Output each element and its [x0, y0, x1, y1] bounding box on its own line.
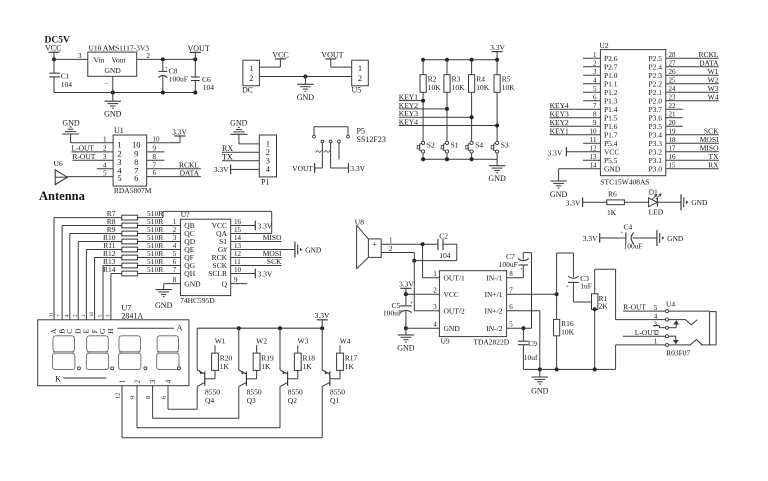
- svg-text:GND: GND: [230, 119, 248, 128]
- svg-text:D1: D1: [649, 187, 658, 196]
- svg-text:3.3V: 3.3V: [490, 43, 505, 52]
- svg-text:9: 9: [593, 119, 597, 127]
- svg-text:Q2: Q2: [288, 396, 297, 405]
- svg-text:GND: GND: [397, 343, 415, 352]
- svg-text:GND: GND: [305, 245, 322, 254]
- svg-text:13: 13: [590, 153, 598, 161]
- svg-text:21: 21: [669, 111, 677, 119]
- svg-text:28: 28: [669, 51, 677, 59]
- svg-text:12: 12: [115, 393, 122, 400]
- svg-text:S4: S4: [475, 141, 483, 150]
- svg-text:8: 8: [145, 396, 152, 399]
- svg-text:KEY1: KEY1: [550, 126, 569, 135]
- svg-text:VCC: VCC: [444, 290, 459, 299]
- svg-text:VOUT: VOUT: [321, 51, 343, 60]
- svg-text:U1: U1: [114, 126, 124, 135]
- svg-text:GND: GND: [184, 279, 201, 288]
- svg-text:−: −: [105, 80, 109, 88]
- svg-text:3.3V: 3.3V: [548, 149, 563, 158]
- svg-text:17: 17: [669, 145, 677, 153]
- svg-text:+: +: [566, 284, 569, 290]
- svg-text:1: 1: [593, 51, 597, 59]
- svg-text:9: 9: [153, 145, 157, 153]
- svg-text:11: 11: [590, 136, 597, 144]
- svg-text:10uf: 10uf: [524, 353, 538, 362]
- svg-text:U9: U9: [441, 337, 450, 346]
- svg-text:+: +: [372, 240, 377, 249]
- svg-text:3.3V: 3.3V: [399, 280, 414, 289]
- svg-text:1K: 1K: [220, 362, 230, 371]
- svg-text:100uF: 100uF: [169, 74, 188, 83]
- svg-text:9: 9: [130, 396, 137, 399]
- svg-text:3: 3: [433, 303, 437, 311]
- svg-text:14: 14: [234, 234, 242, 242]
- svg-text:10K: 10K: [561, 327, 575, 336]
- svg-text:1K: 1K: [303, 362, 313, 371]
- svg-text:DC: DC: [242, 85, 253, 94]
- svg-text:3.3V: 3.3V: [258, 222, 273, 231]
- svg-text:VCC: VCC: [272, 51, 288, 60]
- svg-text:W2: W2: [256, 336, 267, 345]
- svg-text:5: 5: [593, 85, 597, 93]
- svg-text:5: 5: [173, 250, 177, 258]
- svg-text:QH: QH: [184, 269, 195, 278]
- svg-text:R-OUT: R-OUT: [623, 303, 646, 312]
- svg-text:15: 15: [669, 162, 677, 170]
- svg-text:LED: LED: [649, 208, 664, 217]
- svg-text:U10 AMS1117-3V3: U10 AMS1117-3V3: [89, 43, 150, 52]
- svg-text:Q: Q: [222, 279, 228, 288]
- svg-text:6: 6: [173, 258, 177, 266]
- svg-text:2: 2: [358, 74, 362, 83]
- svg-text:SCK: SCK: [267, 257, 282, 266]
- svg-text:1K: 1K: [261, 362, 271, 371]
- svg-text:STC15W408AS: STC15W408AS: [600, 178, 649, 187]
- svg-text:3.3V: 3.3V: [258, 270, 273, 279]
- svg-text:15: 15: [234, 226, 242, 234]
- svg-text:SCLR: SCLR: [208, 269, 227, 278]
- svg-text:2: 2: [133, 379, 141, 383]
- svg-text:TDA2822D: TDA2822D: [473, 337, 509, 346]
- svg-text:3: 3: [173, 234, 177, 242]
- svg-text:Q4: Q4: [205, 396, 214, 405]
- svg-text:GND: GND: [604, 164, 621, 173]
- svg-text:10: 10: [234, 266, 242, 274]
- svg-text:VCC: VCC: [45, 44, 61, 53]
- svg-text:U5: U5: [352, 85, 362, 94]
- svg-text:3.3V: 3.3V: [566, 199, 581, 208]
- svg-text:H: H: [106, 328, 115, 334]
- svg-text:GND: GND: [62, 118, 80, 127]
- svg-text:8: 8: [153, 153, 157, 161]
- svg-text:20: 20: [669, 119, 677, 127]
- svg-text:8: 8: [509, 270, 513, 278]
- svg-text:18: 18: [669, 136, 677, 144]
- svg-text:SS12F23: SS12F23: [357, 135, 386, 144]
- svg-text:TX: TX: [222, 153, 233, 162]
- svg-text:2K: 2K: [599, 301, 609, 310]
- svg-text:GND: GND: [488, 174, 506, 183]
- svg-text:1: 1: [433, 270, 437, 278]
- svg-text:+: +: [165, 66, 168, 72]
- svg-text:8: 8: [593, 111, 597, 119]
- svg-text:S3: S3: [501, 141, 509, 150]
- svg-text:MISO: MISO: [263, 233, 282, 242]
- svg-text:10K: 10K: [502, 83, 516, 92]
- svg-text:GND: GND: [667, 234, 684, 243]
- svg-text:R14: R14: [103, 265, 116, 274]
- svg-text:1: 1: [118, 379, 126, 383]
- svg-text:GND: GND: [105, 66, 122, 75]
- svg-text:C9: C9: [528, 339, 537, 348]
- svg-text:7: 7: [153, 161, 157, 169]
- svg-text:27: 27: [669, 60, 677, 68]
- svg-text:1: 1: [173, 218, 177, 226]
- svg-text:3.3V: 3.3V: [214, 165, 229, 174]
- svg-text:8: 8: [173, 276, 177, 284]
- svg-text:1: 1: [103, 136, 107, 144]
- svg-text:3: 3: [593, 68, 597, 76]
- svg-text:GND: GND: [444, 324, 461, 333]
- svg-text:U6: U6: [54, 159, 63, 168]
- svg-text:14: 14: [590, 162, 598, 170]
- svg-text:22: 22: [669, 102, 677, 110]
- svg-text:12: 12: [590, 145, 598, 153]
- svg-text:S2: S2: [427, 141, 435, 150]
- svg-text:2: 2: [249, 74, 253, 83]
- svg-text:25: 25: [669, 77, 677, 85]
- svg-text:IN-/1: IN-/1: [486, 274, 502, 283]
- svg-text:7: 7: [173, 266, 177, 274]
- svg-text:1K: 1K: [345, 362, 355, 371]
- svg-text:10K: 10K: [476, 83, 490, 92]
- svg-text:7: 7: [509, 287, 513, 295]
- svg-text:K: K: [55, 374, 61, 383]
- svg-text:Q1: Q1: [330, 396, 339, 405]
- svg-text:19: 19: [669, 128, 677, 136]
- svg-text:16: 16: [234, 218, 242, 226]
- svg-text:100uF: 100uF: [383, 308, 402, 317]
- svg-text:GND: GND: [155, 301, 173, 310]
- svg-text:1: 1: [389, 237, 393, 245]
- svg-text:1: 1: [358, 64, 362, 73]
- svg-text:IN+/1: IN+/1: [485, 290, 503, 299]
- svg-text:3: 3: [78, 52, 82, 60]
- svg-text:5: 5: [509, 321, 513, 329]
- svg-text:1uF: 1uF: [580, 281, 592, 290]
- svg-text:26: 26: [669, 68, 677, 76]
- svg-text:6: 6: [509, 303, 513, 311]
- svg-text:10: 10: [590, 128, 598, 136]
- svg-text:6: 6: [153, 169, 157, 177]
- svg-text:7: 7: [593, 102, 597, 110]
- svg-text:12: 12: [234, 250, 242, 258]
- svg-text:+: +: [520, 267, 523, 273]
- svg-text:11: 11: [50, 312, 55, 317]
- svg-text:Antenna: Antenna: [39, 189, 86, 203]
- svg-text:16: 16: [669, 153, 677, 161]
- svg-text:P3.0: P3.0: [648, 164, 662, 173]
- svg-text:100uF: 100uF: [624, 242, 643, 251]
- svg-text:4: 4: [164, 379, 172, 383]
- svg-text:2: 2: [173, 226, 177, 234]
- svg-text:23: 23: [669, 94, 677, 102]
- svg-text:W4: W4: [340, 336, 351, 345]
- svg-text:13: 13: [234, 242, 242, 250]
- svg-text:6: 6: [593, 94, 597, 102]
- svg-text:1: 1: [249, 64, 253, 73]
- svg-text:VOUT: VOUT: [292, 164, 313, 173]
- svg-text:S1: S1: [451, 141, 459, 150]
- svg-text:3.3V: 3.3V: [583, 234, 598, 243]
- svg-text:3.3V: 3.3V: [172, 128, 187, 137]
- svg-text:Vin: Vin: [94, 55, 105, 64]
- svg-text:3.3V: 3.3V: [350, 164, 365, 173]
- svg-text:GND: GND: [531, 386, 549, 395]
- svg-text:3.3V: 3.3V: [315, 311, 330, 320]
- svg-text:W1: W1: [215, 336, 226, 345]
- svg-text:11: 11: [234, 258, 241, 266]
- svg-text:24: 24: [669, 85, 677, 93]
- svg-text:3: 3: [149, 379, 157, 383]
- svg-text:2: 2: [389, 245, 393, 253]
- svg-text:100uF: 100uF: [499, 260, 518, 269]
- svg-text:5: 5: [654, 304, 658, 312]
- svg-text:U2: U2: [600, 41, 609, 50]
- svg-text:2841A: 2841A: [121, 312, 143, 321]
- svg-text:4: 4: [266, 165, 270, 174]
- svg-text:W3: W3: [298, 336, 309, 345]
- svg-text:OUT/2: OUT/2: [444, 307, 465, 316]
- svg-text:R6: R6: [608, 190, 617, 199]
- svg-text:4: 4: [593, 77, 597, 85]
- svg-text:10K: 10K: [428, 83, 442, 92]
- svg-text:2: 2: [593, 60, 597, 68]
- svg-text:GND: GND: [691, 198, 708, 207]
- svg-text:1K: 1K: [607, 208, 617, 217]
- svg-text:2: 2: [147, 52, 151, 60]
- svg-text:104: 104: [61, 80, 72, 89]
- svg-text:W4: W4: [708, 92, 719, 101]
- svg-text:2: 2: [433, 287, 437, 295]
- svg-text:C4: C4: [624, 222, 633, 231]
- svg-text:9: 9: [234, 276, 238, 284]
- svg-text:GND: GND: [550, 190, 568, 199]
- svg-text:L-OUT: L-OUT: [635, 328, 658, 337]
- svg-text:DATA: DATA: [180, 168, 200, 177]
- svg-text:104: 104: [439, 251, 451, 260]
- svg-text:P1: P1: [261, 177, 269, 186]
- svg-text:Q3: Q3: [247, 396, 256, 405]
- svg-text:4: 4: [654, 312, 658, 320]
- svg-text:U4: U4: [666, 299, 675, 308]
- svg-text:Vout: Vout: [112, 55, 127, 64]
- svg-text:104: 104: [203, 83, 215, 92]
- svg-text:6: 6: [134, 173, 138, 183]
- svg-text:74HC595D: 74HC595D: [180, 296, 215, 305]
- svg-text:RDA5807M: RDA5807M: [114, 186, 152, 195]
- svg-text:4: 4: [433, 321, 437, 329]
- svg-text:1: 1: [654, 338, 658, 346]
- svg-text:IN-/2: IN-/2: [486, 324, 502, 333]
- svg-text:RX: RX: [708, 160, 719, 169]
- svg-text:10: 10: [90, 312, 95, 318]
- svg-text:C2: C2: [439, 231, 448, 240]
- svg-text:10K: 10K: [452, 83, 466, 92]
- svg-text:4: 4: [173, 242, 177, 250]
- svg-text:R03F07: R03F07: [666, 348, 690, 357]
- svg-text:U?: U?: [181, 210, 190, 219]
- svg-text:GND: GND: [104, 110, 122, 119]
- svg-text:IN+/2: IN+/2: [485, 307, 503, 316]
- svg-text:510R: 510R: [147, 265, 163, 274]
- svg-text:10: 10: [153, 135, 161, 143]
- svg-text:A: A: [177, 324, 183, 333]
- svg-text:R-OUT: R-OUT: [72, 152, 95, 161]
- svg-text:OUT/1: OUT/1: [444, 274, 465, 283]
- svg-text:GND: GND: [297, 93, 315, 102]
- svg-text:5: 5: [117, 173, 121, 183]
